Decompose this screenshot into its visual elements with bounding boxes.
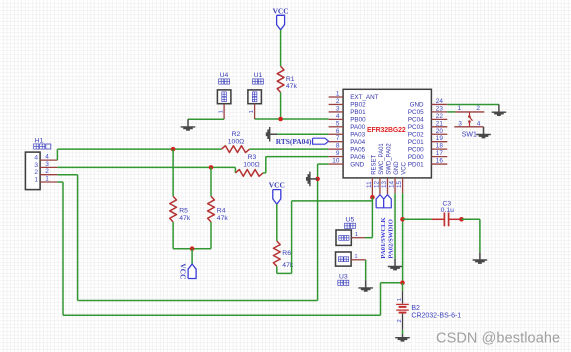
svg-text:PB00: PB00 bbox=[350, 117, 366, 124]
svg-text:SWD_PA02: SWD_PA02 bbox=[386, 143, 392, 175]
svg-text:U1: U1 bbox=[254, 72, 263, 79]
svg-text:CR2032-BS-6-1: CR2032-BS-6-1 bbox=[411, 313, 461, 320]
svg-text:2: 2 bbox=[45, 168, 49, 175]
svg-text:47k: 47k bbox=[179, 215, 191, 222]
svg-text:100Ω: 100Ω bbox=[228, 138, 244, 145]
svg-text:16: 16 bbox=[436, 158, 444, 165]
svg-text:R2: R2 bbox=[232, 131, 241, 138]
svg-text:R4: R4 bbox=[217, 208, 226, 215]
svg-text:9: 9 bbox=[336, 150, 340, 157]
svg-text:0.1u: 0.1u bbox=[441, 207, 454, 214]
svg-text:14: 14 bbox=[389, 180, 396, 188]
svg-text:PC01: PC01 bbox=[408, 139, 424, 146]
svg-text:R6: R6 bbox=[282, 250, 291, 257]
svg-text:2: 2 bbox=[397, 319, 403, 322]
svg-text:PC04: PC04 bbox=[408, 117, 424, 124]
svg-text:1: 1 bbox=[457, 105, 461, 112]
svg-text:15: 15 bbox=[396, 180, 403, 188]
svg-text:21: 21 bbox=[436, 120, 444, 127]
svg-text:20: 20 bbox=[436, 128, 444, 135]
svg-text:3: 3 bbox=[34, 162, 38, 169]
svg-text:PA02/SWDIO: PA02/SWDIO bbox=[388, 219, 395, 258]
svg-text:B2: B2 bbox=[411, 305, 420, 312]
svg-text:1: 1 bbox=[397, 298, 403, 301]
svg-text:PA04: PA04 bbox=[350, 139, 365, 146]
svg-text:PA03: PA03 bbox=[350, 131, 365, 138]
svg-text:PA00: PA00 bbox=[350, 124, 365, 131]
svg-text:3: 3 bbox=[336, 105, 340, 112]
svg-text:23: 23 bbox=[436, 105, 444, 112]
svg-text:RTS(PA04): RTS(PA04) bbox=[276, 137, 312, 146]
svg-text:12: 12 bbox=[373, 180, 380, 188]
svg-text:1: 1 bbox=[45, 176, 49, 183]
svg-text:22: 22 bbox=[436, 113, 444, 120]
svg-text:U4: U4 bbox=[220, 72, 229, 79]
svg-text:SW1: SW1 bbox=[462, 131, 477, 138]
svg-text:1: 1 bbox=[249, 110, 255, 113]
svg-text:1: 1 bbox=[34, 176, 38, 183]
svg-text:19: 19 bbox=[436, 135, 444, 142]
svg-text:1: 1 bbox=[354, 254, 357, 260]
svg-text:1: 1 bbox=[355, 232, 358, 238]
svg-text:4: 4 bbox=[45, 154, 49, 161]
svg-text:VCC: VCC bbox=[402, 161, 408, 174]
svg-text:100Ω: 100Ω bbox=[243, 161, 259, 168]
svg-text:RESET: RESET bbox=[371, 154, 377, 174]
svg-text:5: 5 bbox=[336, 120, 340, 127]
svg-text:3: 3 bbox=[458, 120, 462, 127]
svg-text:PA01/SWCLK: PA01/SWCLK bbox=[380, 216, 387, 258]
svg-text:10: 10 bbox=[332, 158, 340, 165]
svg-text:4: 4 bbox=[34, 155, 38, 162]
svg-text:PC02: PC02 bbox=[408, 131, 424, 138]
svg-text:VCC: VCC bbox=[269, 181, 285, 190]
svg-text:18: 18 bbox=[436, 143, 444, 150]
svg-text:PC05: PC05 bbox=[408, 109, 424, 116]
svg-text:PD00: PD00 bbox=[408, 154, 424, 161]
svg-text:EFR32BG22: EFR32BG22 bbox=[367, 127, 406, 134]
svg-text:H1: H1 bbox=[35, 137, 44, 144]
svg-text:U3: U3 bbox=[339, 273, 348, 280]
svg-text:1: 1 bbox=[218, 110, 224, 113]
svg-text:VCC: VCC bbox=[273, 6, 289, 15]
svg-text:R1: R1 bbox=[286, 76, 295, 83]
svg-text:11: 11 bbox=[366, 181, 373, 188]
svg-text:EXT_ANT: EXT_ANT bbox=[350, 94, 378, 101]
svg-text:47k: 47k bbox=[286, 83, 298, 90]
svg-text:1: 1 bbox=[336, 91, 340, 98]
svg-text:GND: GND bbox=[394, 161, 400, 175]
svg-text:4: 4 bbox=[336, 113, 340, 120]
svg-text:PA05: PA05 bbox=[350, 146, 365, 153]
svg-text:PD01: PD01 bbox=[408, 161, 424, 168]
svg-text:R3: R3 bbox=[248, 154, 257, 161]
svg-text:13: 13 bbox=[381, 180, 388, 188]
svg-text:PB02: PB02 bbox=[350, 102, 366, 109]
svg-text:PA06: PA06 bbox=[350, 154, 365, 161]
svg-text:GND: GND bbox=[410, 102, 424, 109]
svg-text:U5: U5 bbox=[346, 217, 355, 224]
svg-text:6: 6 bbox=[336, 128, 340, 135]
svg-text:PB01: PB01 bbox=[350, 109, 366, 116]
svg-text:PC03: PC03 bbox=[408, 124, 424, 131]
svg-text:PC00: PC00 bbox=[408, 146, 424, 153]
svg-text:8: 8 bbox=[336, 143, 340, 150]
svg-text:CSDN @bestloahe: CSDN @bestloahe bbox=[436, 330, 560, 346]
svg-text:17: 17 bbox=[436, 150, 444, 157]
svg-text:7: 7 bbox=[336, 135, 340, 142]
svg-text:24: 24 bbox=[436, 98, 444, 105]
svg-text:GND: GND bbox=[350, 161, 364, 168]
svg-text:4: 4 bbox=[477, 120, 481, 127]
svg-text:2: 2 bbox=[476, 105, 480, 112]
svg-text:3: 3 bbox=[45, 161, 49, 168]
svg-text:SWC_PA01: SWC_PA01 bbox=[379, 143, 385, 175]
svg-text:VCC: VCC bbox=[179, 263, 188, 279]
svg-text:2: 2 bbox=[34, 169, 38, 176]
svg-text:R5: R5 bbox=[179, 208, 188, 215]
svg-text:47k: 47k bbox=[217, 215, 229, 222]
svg-text:2: 2 bbox=[336, 98, 340, 105]
